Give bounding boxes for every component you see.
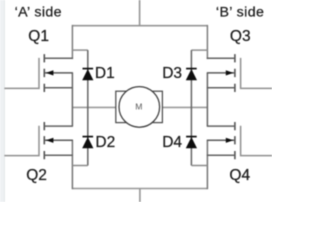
- wire Q3 drain riser: [206, 25, 208, 59]
- channel ticks Q4: [234, 122, 236, 159]
- wire right diode chain: [190, 50, 192, 165]
- wire D4 bottom branch: [191, 165, 207, 167]
- body stub Q3: [207, 72, 235, 74]
- body arrow Q2: [46, 138, 54, 143]
- wire bottom rail: [72, 188, 207, 190]
- body stub Q2: [44, 139, 73, 141]
- D1 cathode bar: [83, 68, 94, 70]
- motor frame rect: [116, 91, 163, 122]
- gate lead + gate bar Q1: [4, 58, 39, 89]
- D4 anode triangle: [186, 137, 197, 148]
- diode D3: [186, 69, 197, 81]
- wire top supply stub: [139, 0, 141, 26]
- transistor Q4: [207, 122, 272, 159]
- body stub Q1: [44, 72, 73, 74]
- D3 anode triangle: [186, 69, 197, 80]
- D4 cathode bar: [186, 136, 197, 138]
- svg-text:‘A’ side: ‘A’ side: [15, 5, 62, 21]
- wire bottom supply stub: [139, 189, 141, 203]
- source stub Q1: [44, 87, 73, 89]
- wire motor left rail: [72, 106, 116, 108]
- svg-text:Q3: Q3: [230, 28, 251, 45]
- wire Q1 source / Q2 drain link: [71, 73, 73, 126]
- svg-text:D2: D2: [95, 134, 115, 151]
- D3 cathode bar: [186, 68, 197, 70]
- left page-edge strip: [0, 0, 4, 202]
- svg-text:D1: D1: [95, 65, 115, 82]
- transistor Q1: [4, 54, 73, 92]
- svg-text:D3: D3: [162, 65, 182, 82]
- source stub Q3: [207, 87, 235, 89]
- drain stub Q4: [207, 125, 235, 127]
- wire D3 top branch: [191, 49, 207, 51]
- svg-text:M: M: [135, 101, 142, 111]
- D2 cathode bar: [83, 136, 94, 138]
- body arrow Q1: [46, 70, 54, 75]
- diode D2: [82, 137, 93, 149]
- drain stub Q2: [44, 125, 73, 127]
- gate lead + gate bar Q3: [241, 58, 272, 89]
- source stub Q4: [207, 154, 235, 156]
- wire motor right rail: [162, 106, 208, 108]
- wire Q3 source / Q4 drain link: [206, 73, 208, 126]
- motor body circle: [119, 87, 160, 128]
- diode D1: [82, 69, 93, 81]
- transistor Q3: [207, 54, 272, 92]
- wire top rail: [72, 25, 207, 27]
- wire left diode chain: [87, 50, 89, 165]
- svg-text:Q2: Q2: [26, 167, 47, 184]
- wire D2 bottom branch: [72, 165, 87, 167]
- svg-text:Q4: Q4: [229, 167, 250, 184]
- body arrow Q3: [226, 70, 234, 75]
- D1 anode triangle: [82, 69, 93, 80]
- gate lead + gate bar Q2: [4, 126, 39, 156]
- channel ticks Q2: [43, 122, 45, 159]
- svg-text:‘B’ side: ‘B’ side: [216, 5, 264, 21]
- channel ticks Q1: [43, 54, 45, 92]
- wire D1 top branch: [72, 49, 87, 51]
- source stub Q2: [44, 154, 73, 156]
- svg-text:D4: D4: [162, 134, 182, 151]
- wire Q4 source drop: [206, 140, 208, 189]
- wire Q1 drain riser: [71, 25, 73, 59]
- drain stub Q1: [44, 57, 73, 59]
- D2 anode triangle: [82, 137, 93, 148]
- motor M: [116, 87, 163, 128]
- drain stub Q3: [207, 57, 235, 59]
- transistor Q2: [4, 122, 73, 159]
- svg-text:Q1: Q1: [28, 28, 49, 45]
- body stub Q4: [207, 139, 235, 141]
- wire Q2 source drop: [71, 140, 73, 189]
- channel ticks Q3: [234, 54, 236, 92]
- gate lead + gate bar Q4: [241, 126, 272, 156]
- body arrow Q4: [226, 138, 234, 143]
- diode D4: [186, 137, 197, 149]
